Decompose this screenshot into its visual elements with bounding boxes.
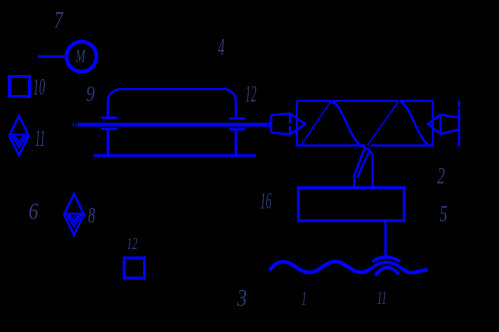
svg-text:12: 12 [127,235,138,254]
svg-text:9: 9 [86,82,95,106]
svg-text:M: M [75,47,87,67]
svg-text:2: 2 [437,164,445,189]
svg-text:11: 11 [35,126,45,151]
svg-text:12: 12 [245,81,256,106]
svg-text:5: 5 [440,202,448,227]
svg-text:10: 10 [33,74,45,99]
svg-text:6: 6 [29,199,39,225]
svg-text:8: 8 [88,204,96,229]
svg-text:4: 4 [218,35,225,61]
svg-text:11: 11 [377,288,387,309]
svg-text:3: 3 [236,284,247,311]
svg-text:16: 16 [260,188,271,213]
svg-text:7: 7 [54,7,64,34]
svg-text:1: 1 [302,289,307,311]
